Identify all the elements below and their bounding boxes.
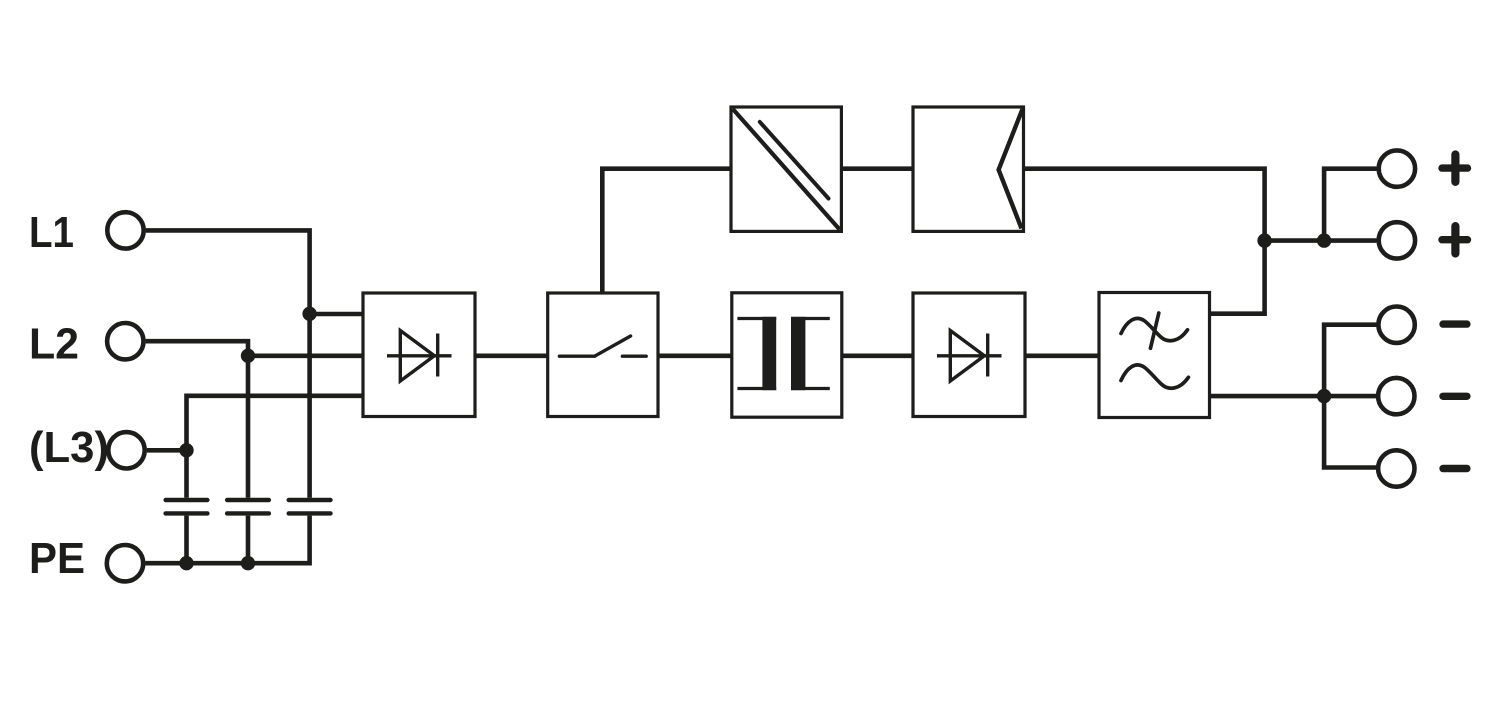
wire PE bus <box>145 516 309 564</box>
filter U5 bottom sine <box>1121 365 1188 388</box>
terminal L2 <box>107 323 143 359</box>
rectifier U1 box <box>363 293 475 417</box>
minus sign 3 <box>1443 465 1467 472</box>
node (L3) junction <box>179 443 193 457</box>
wire L1 to rectifier column <box>146 230 310 497</box>
wire capacitor column 1 up to rectifier input 3 <box>187 396 364 498</box>
transformer T1 windings <box>737 319 829 389</box>
wire minus rail vertical with branches <box>1324 325 1376 468</box>
minus sign 1 <box>1443 320 1467 327</box>
node plus rail junction 1 <box>1257 233 1271 247</box>
node plus rail junction 2 <box>1317 233 1331 247</box>
U3 main diagonal <box>733 109 840 230</box>
terminal L1 <box>107 212 143 248</box>
U4 chevron <box>999 109 1023 228</box>
wire D1 to filter U5 <box>1025 353 1099 358</box>
terminal -1 <box>1378 307 1414 343</box>
svg-text:L2: L2 <box>29 321 79 369</box>
terminal (L3) <box>108 432 144 468</box>
diode D1 box <box>913 293 1025 417</box>
wire U1 to switch S1 <box>475 353 548 358</box>
switch S1 box <box>548 293 658 417</box>
switch symbol in S1 <box>559 336 646 356</box>
wire U3 to booster U4 <box>841 166 913 171</box>
terminal -2 <box>1378 378 1414 414</box>
svg-text:(L3): (L3) <box>29 424 109 472</box>
DC/DC converter U3 box <box>731 107 841 231</box>
node minus rail junction <box>1317 389 1331 403</box>
wire filter output to minus rail <box>1210 394 1377 399</box>
node PE/C1 junction <box>179 556 193 570</box>
filter U5 top sine with strike <box>1121 313 1188 388</box>
wire L2 junction to rectifier input 2 <box>248 353 363 358</box>
booster U4 box <box>913 107 1024 231</box>
wire (L3) to capacitor column 1 <box>147 448 187 453</box>
wire S1 to transformer T1 <box>658 353 732 358</box>
plus sign 1 <box>1442 155 1468 182</box>
minus sign 2 <box>1443 393 1467 400</box>
svg-text:L1: L1 <box>29 209 74 257</box>
wire L2 to capacitor column 2 <box>146 341 248 498</box>
transformer T1 box <box>732 293 842 417</box>
terminal +1 <box>1379 150 1415 186</box>
wire C1 to PE <box>184 516 189 564</box>
plus sign 2 <box>1442 226 1468 253</box>
capacitor C3 <box>289 500 331 513</box>
terminal PE <box>107 545 143 581</box>
transformer T1 core bars <box>762 317 776 390</box>
filter U5 box <box>1099 293 1210 418</box>
diode symbol in D1 <box>937 331 1002 382</box>
node L1/rectifier junction <box>302 307 316 321</box>
terminal -3 <box>1378 450 1414 486</box>
wire L1 junction to rectifier input 1 <box>310 312 363 317</box>
U3 parallel diagonal <box>760 122 829 199</box>
wire plus rail junction to filter top output <box>1210 241 1265 314</box>
svg-text:PE: PE <box>29 535 85 583</box>
wire S1 top to DC/DC converter U3 <box>602 169 731 293</box>
diode symbol in U1 <box>387 331 452 382</box>
node L2/rectifier junction <box>241 349 255 363</box>
wire up to terminal +1 <box>1324 169 1376 241</box>
wire C2 to PE <box>246 516 251 564</box>
terminal +2 <box>1379 222 1415 258</box>
wire U4 to output plus rail <box>1024 169 1265 241</box>
node PE/C2 junction <box>241 556 255 570</box>
capacitor C2 <box>227 500 269 513</box>
capacitor C1 <box>166 500 208 513</box>
wire plus rail to terminal +2 <box>1265 238 1377 243</box>
wire T1 to diode D1 <box>842 353 913 358</box>
